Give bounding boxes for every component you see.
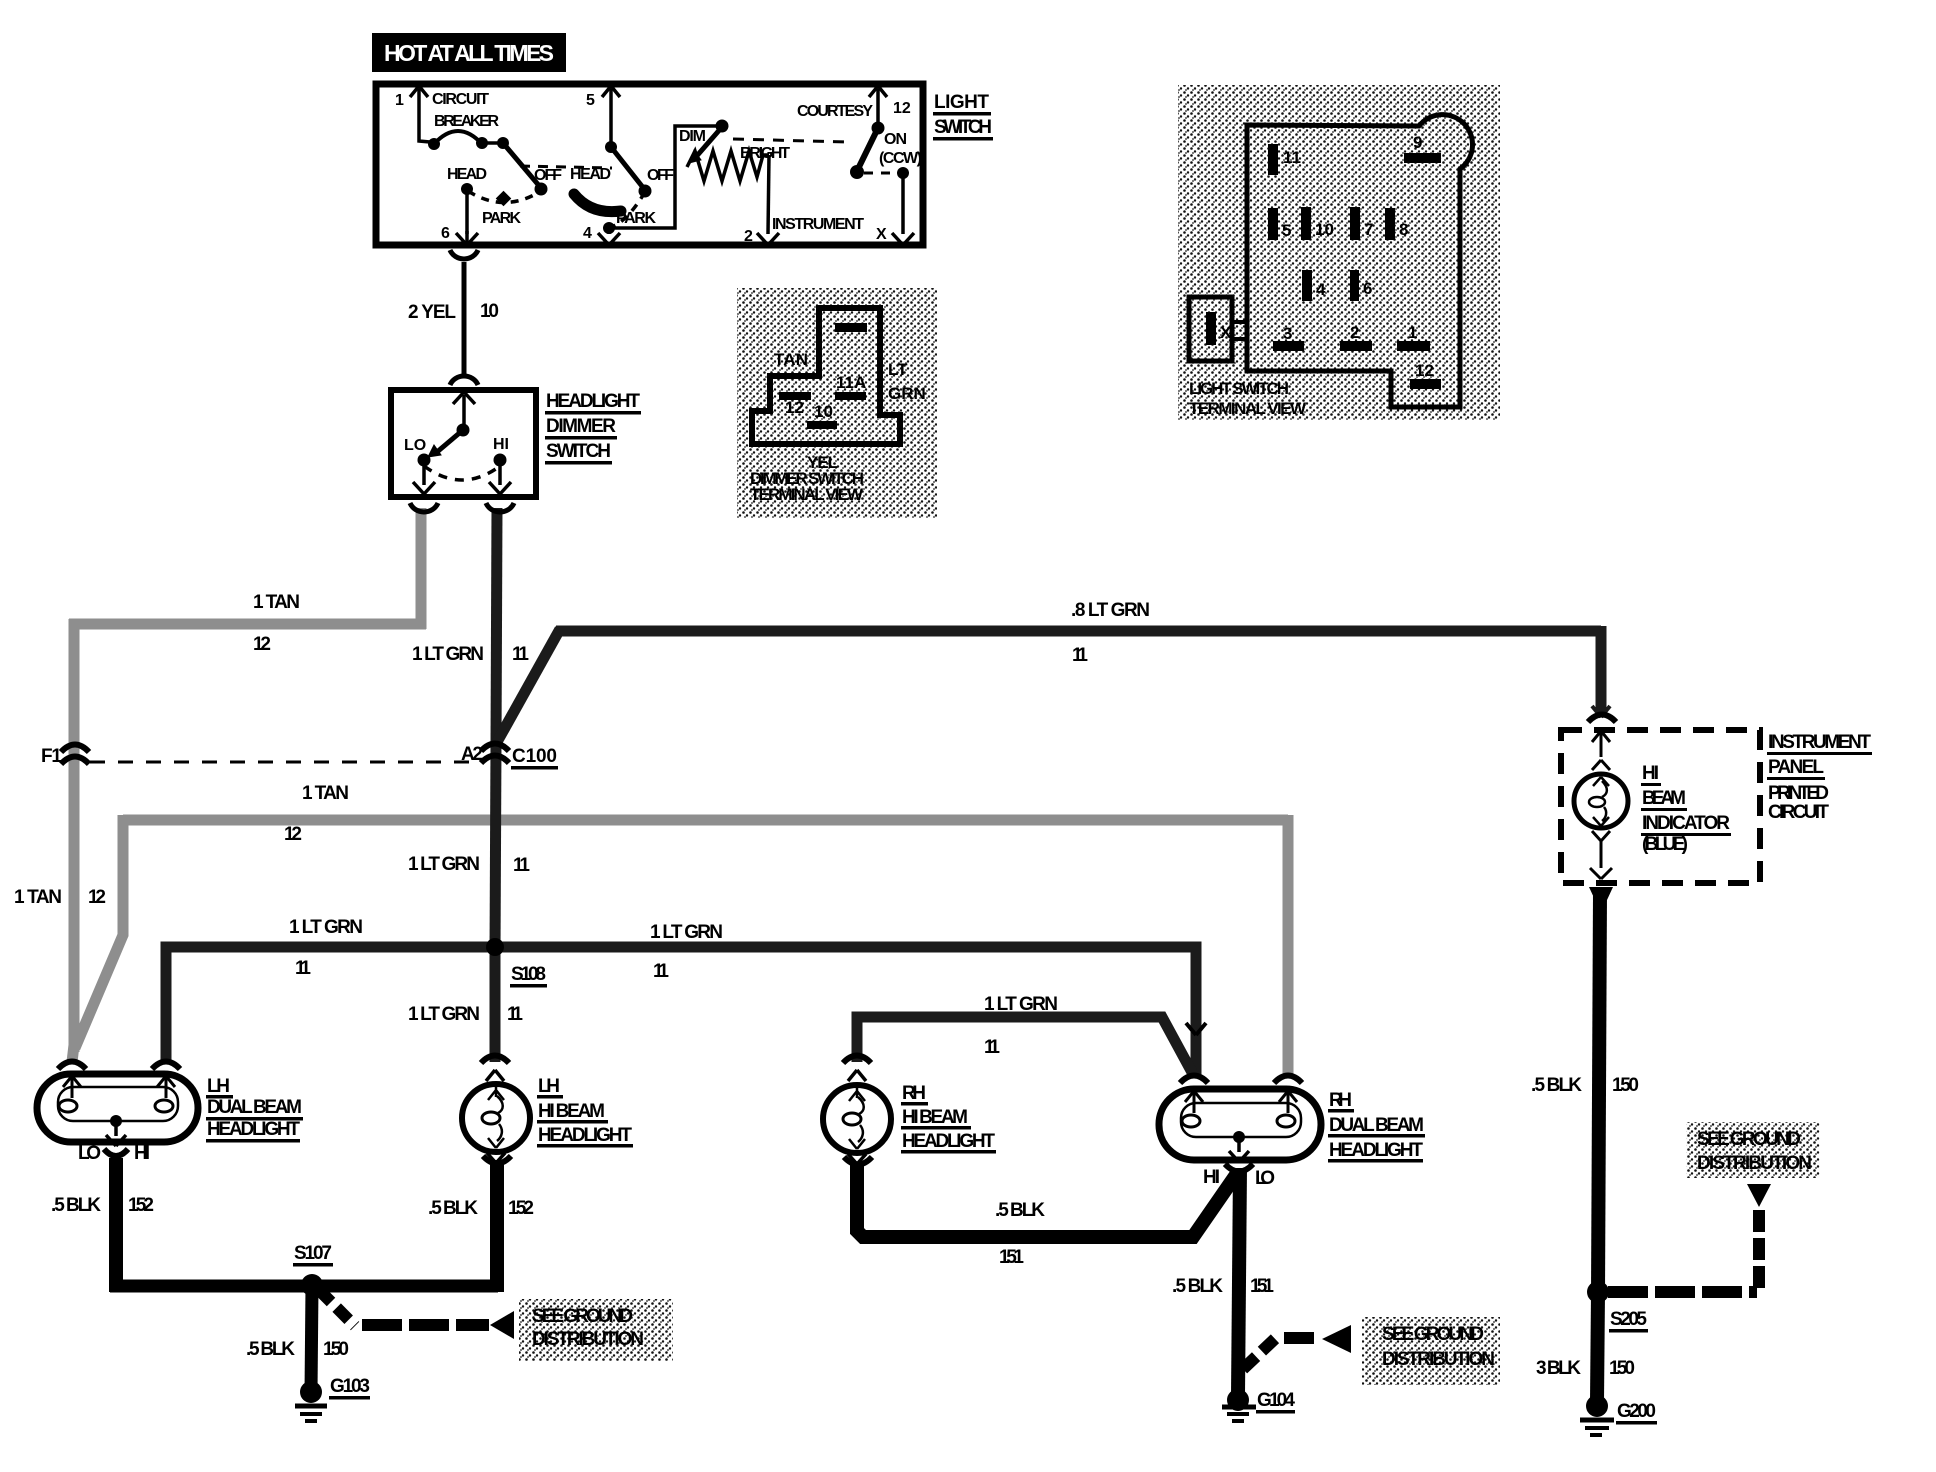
contact dot HEAD 1	[461, 183, 473, 195]
contact dot blade pivot 2	[605, 141, 617, 153]
dashed arc section 2	[611, 192, 645, 227]
svg-text:1 LT GRN: 1 LT GRN	[408, 1004, 480, 1025]
splice S205 dot	[1587, 1281, 1609, 1303]
contact diamond PARK 1	[496, 191, 512, 207]
LH dual beam headlight	[37, 1062, 198, 1157]
dash on to X contact	[864, 172, 893, 175]
svg-text:BEAM: BEAM	[1642, 788, 1686, 809]
terminal X	[1206, 312, 1216, 345]
contact dot ON	[850, 165, 864, 179]
svg-text:GRN: GRN	[888, 384, 926, 403]
contact dot PARK 2	[603, 222, 615, 234]
wire 1 LT GRN 11 below S108 to LH HI beam headlight	[490, 947, 501, 1062]
wire .5 BLK 151 RH HI beam ground run	[857, 1164, 1238, 1237]
filament LO	[1277, 1115, 1295, 1127]
mechanical link dashes section1-section2	[520, 166, 612, 168]
entry connector right terminal	[1274, 1076, 1302, 1084]
entry chevron	[486, 1070, 504, 1081]
svg-text:DIM: DIM	[679, 128, 706, 145]
svg-text:11: 11	[1072, 645, 1088, 666]
svg-text:LT: LT	[888, 360, 908, 379]
svg-text:HI BEAM: HI BEAM	[902, 1107, 968, 1128]
dimmer pivot lead	[462, 395, 466, 428]
svg-text:DUAL BEAM: DUAL BEAM	[1329, 1115, 1424, 1136]
svg-text:11A: 11A	[836, 373, 866, 392]
lamp circle	[462, 1084, 530, 1152]
dashed arc LO-HI	[424, 466, 500, 480]
svg-text:.5 BLK: .5 BLK	[1172, 1276, 1223, 1297]
terminal 10 (dimmer)	[807, 421, 837, 429]
svg-text:SWITCH: SWITCH	[546, 441, 611, 462]
exit connector	[104, 1149, 128, 1156]
wire 1 LT GRN 11 RH HI beam feed horizontal	[857, 1017, 1194, 1076]
svg-text:HEAD: HEAD	[570, 166, 611, 183]
svg-text:ON: ON	[884, 131, 907, 148]
wire 1 TAN 12 left drop of lower run	[75, 815, 123, 1048]
LH HI beam headlight	[462, 1056, 530, 1164]
connector symbol at dimmer switch input	[450, 376, 478, 385]
arrow to see ground distribution (left)	[490, 1311, 514, 1339]
courtesy switch blade	[857, 128, 878, 171]
contact dot CB left	[428, 138, 440, 150]
svg-text:1: 1	[1408, 323, 1417, 342]
svg-text:12: 12	[284, 824, 302, 845]
wire 1 TAN 12 lower horizontal run to RH dual beam	[123, 815, 1288, 826]
exit lead and arrow	[1590, 841, 1612, 879]
entry connector left terminal	[1180, 1076, 1208, 1084]
svg-text:.5 BLK: .5 BLK	[995, 1200, 1045, 1221]
inner envelope	[1181, 1103, 1301, 1137]
connector symbol below pin 6	[450, 250, 478, 259]
pin 2 arrow	[757, 233, 779, 245]
svg-text:1 TAN: 1 TAN	[253, 592, 300, 613]
svg-text:4: 4	[583, 225, 592, 242]
terminal 9	[1404, 153, 1441, 163]
wire 1 TAN 12 right drop into RH dual beam LO terminal	[1283, 815, 1294, 1076]
dashed wire G104 branch to ground distribution	[1243, 1334, 1280, 1369]
svg-text:6: 6	[441, 225, 450, 242]
svg-text:BREAKER: BREAKER	[434, 113, 499, 130]
svg-text:F1: F1	[41, 746, 62, 767]
dashed line dim to on	[733, 139, 848, 142]
svg-text:12: 12	[253, 634, 271, 655]
svg-text:OFF: OFF	[647, 167, 674, 184]
svg-text:152: 152	[508, 1198, 534, 1219]
svg-text:9: 9	[1413, 133, 1422, 152]
svg-text:5: 5	[586, 92, 595, 109]
dimmer switch terminal view	[737, 288, 937, 518]
exit connector	[844, 1157, 872, 1165]
dimmer pivot dot	[457, 424, 470, 437]
RH dual beam headlight	[1159, 1076, 1321, 1172]
light switch terminal view	[1178, 85, 1500, 420]
svg-text:HI: HI	[1203, 1167, 1220, 1188]
svg-text:11: 11	[295, 958, 311, 979]
svg-text:SEE GROUND: SEE GROUND	[1697, 1129, 1801, 1150]
dimmer switch label	[545, 391, 641, 465]
svg-text:150: 150	[1609, 1358, 1635, 1379]
svg-text:S107: S107	[294, 1243, 332, 1264]
svg-text:10: 10	[1315, 220, 1334, 239]
light switch box	[376, 84, 923, 245]
svg-text:INSTRUMENT: INSTRUMENT	[772, 216, 864, 233]
wire 1 LT GRN 11 S108 horizontal left branch to LH dual beam	[166, 947, 495, 1062]
svg-text:DISTRIBUTION: DISTRIBUTION	[1697, 1153, 1812, 1174]
svg-text:X: X	[1220, 323, 1232, 342]
svg-text:3 BLK: 3 BLK	[1536, 1358, 1581, 1379]
connector below dimmer HI	[486, 503, 514, 512]
svg-text:10: 10	[480, 301, 499, 322]
svg-text:PARK: PARK	[616, 210, 656, 227]
ground G103	[295, 1381, 327, 1421]
svg-text:SEE GROUND: SEE GROUND	[1382, 1324, 1484, 1345]
terminal 12	[1410, 379, 1441, 389]
svg-text:LO: LO	[1255, 1168, 1275, 1189]
svg-text:151: 151	[1250, 1276, 1274, 1297]
svg-text:DISTRIBUTION: DISTRIBUTION	[1382, 1349, 1495, 1370]
connector body outline	[1247, 115, 1473, 407]
svg-text:LO: LO	[78, 1143, 101, 1164]
terminal 6	[1350, 270, 1359, 301]
filament LO	[59, 1100, 77, 1112]
svg-text:.8 LT GRN: .8 LT GRN	[1071, 600, 1150, 621]
svg-text:HEADLIGHT: HEADLIGHT	[902, 1131, 995, 1152]
HI lead	[498, 460, 502, 485]
terminal 3	[1273, 341, 1304, 351]
wire 2 YEL 10 (light switch pin 6 to dimmer switch)	[462, 262, 467, 378]
svg-text:2: 2	[744, 228, 753, 245]
splice S108 dot	[486, 938, 504, 956]
terminal 11A	[835, 392, 866, 400]
exit arrow	[1229, 1137, 1249, 1162]
svg-text:4: 4	[1316, 280, 1326, 299]
link dot2-dot3	[482, 141, 503, 145]
svg-text:CIRCUIT: CIRCUIT	[1768, 802, 1829, 823]
terminal arrow right	[1279, 1091, 1297, 1113]
exit arrow	[106, 1121, 126, 1146]
svg-text:.5 BLK: .5 BLK	[246, 1339, 295, 1360]
park contact lead to pin 4	[607, 228, 611, 234]
svg-text:HEAD: HEAD	[447, 166, 487, 183]
svg-text:LH: LH	[207, 1076, 230, 1097]
HI arrow	[489, 482, 511, 494]
exit connector	[483, 1156, 511, 1164]
pin 4 arrow	[598, 233, 620, 245]
wire-end arrow above indicator connector	[1592, 706, 1610, 717]
dimmer LO dot	[418, 454, 431, 467]
terminal arrow left	[1185, 1091, 1203, 1113]
connector body outline	[752, 308, 900, 444]
rheostat to pin 2 lead	[768, 155, 769, 234]
svg-text:HEADLIGHT: HEADLIGHT	[546, 391, 640, 412]
see ground distribution box (G104)	[1362, 1317, 1500, 1385]
terminal 4	[1302, 270, 1312, 301]
bulb glyph	[849, 1088, 865, 1101]
contact dot X	[897, 167, 909, 179]
wire .5 BLK 150 HI beam indicator ground drop	[1598, 893, 1600, 1293]
wire 1 TAN 12 left vertical through F1	[69, 619, 80, 1052]
wire .5 BLK 151 RH dual beam ground drop to G104	[1238, 1168, 1240, 1395]
dashed connector line F1 to C100	[90, 761, 482, 764]
svg-text:PANEL: PANEL	[1768, 757, 1824, 778]
pin 6 arrow	[456, 233, 478, 245]
svg-text:G104: G104	[1257, 1390, 1295, 1411]
entry chevron	[848, 1070, 866, 1081]
arrow from see ground distribution (right)	[1747, 1184, 1771, 1207]
entry connector right terminal	[152, 1062, 180, 1070]
svg-text:1 LT GRN: 1 LT GRN	[650, 922, 723, 943]
terminal arrow right	[157, 1076, 175, 1098]
exit connector	[1225, 1164, 1253, 1172]
arrow into dimmer switch	[453, 392, 475, 404]
svg-text:11: 11	[1283, 148, 1301, 167]
svg-text:HI: HI	[134, 1143, 150, 1164]
svg-text:LIGHT: LIGHT	[934, 92, 989, 113]
HI beam indicator (instrument panel)	[1561, 715, 1760, 901]
svg-text:12: 12	[88, 887, 106, 908]
circuit breaker arc	[434, 131, 482, 144]
bulb glyph	[1593, 777, 1609, 786]
see ground distribution box (S107)	[519, 1299, 673, 1361]
filament HI	[1182, 1115, 1200, 1127]
head contact lead to pin 6	[465, 193, 469, 234]
terminal 10	[1301, 207, 1311, 240]
wire .5 BLK 152 ground bus into S107	[110, 1280, 498, 1293]
exit chevron	[848, 1154, 866, 1164]
svg-text:HI BEAM: HI BEAM	[538, 1101, 605, 1122]
svg-text:1 LT GRN: 1 LT GRN	[408, 854, 480, 875]
wire .8 LT GRN 11 horizontal run to instrument panel	[556, 626, 1601, 637]
terminal 7	[1350, 207, 1360, 240]
LABELS-LAYER	[14, 301, 1872, 1425]
svg-text:PRINTED: PRINTED	[1768, 783, 1829, 804]
splice S107 dot	[301, 1274, 323, 1296]
svg-text:A2: A2	[461, 744, 483, 765]
svg-text:LIGHT SWITCH: LIGHT SWITCH	[1189, 379, 1289, 398]
contact dot OFF 2	[639, 185, 652, 198]
svg-text:.5 BLK: .5 BLK	[1531, 1075, 1582, 1096]
inner envelope	[58, 1087, 178, 1121]
svg-text:HI: HI	[493, 436, 509, 453]
ground G200	[1580, 1395, 1614, 1435]
bulb glyph	[488, 1087, 504, 1100]
LO arrow	[413, 482, 435, 494]
svg-text:1 LT GRN: 1 LT GRN	[412, 644, 484, 665]
entry connector	[843, 1056, 871, 1064]
terminal 5	[1268, 208, 1278, 240]
terminal 2	[1340, 341, 1372, 351]
svg-text:8: 8	[1399, 220, 1408, 239]
svg-text:12: 12	[785, 398, 804, 417]
svg-text:LO: LO	[404, 437, 426, 454]
svg-text:5: 5	[1282, 221, 1291, 240]
svg-text:DUAL BEAM: DUAL BEAM	[207, 1097, 302, 1118]
dimmer HI dot	[494, 454, 507, 467]
connector C100 A2 (stacked arcs)	[481, 744, 509, 752]
svg-text:1 LT GRN: 1 LT GRN	[289, 917, 363, 938]
indicator lamp circle	[1574, 774, 1628, 828]
svg-text:HEADLIGHT: HEADLIGHT	[538, 1125, 632, 1146]
terminal 12 (dimmer)	[779, 392, 811, 400]
svg-text:1 TAN: 1 TAN	[302, 783, 349, 804]
dashed wire S205 to ground distribution	[1608, 1286, 1757, 1298]
svg-text:11: 11	[512, 644, 529, 665]
switch blade pin5 section	[611, 147, 645, 190]
pin X arrow	[892, 233, 914, 245]
svg-text:DIMMER: DIMMER	[546, 416, 616, 437]
connector below dimmer LO	[410, 503, 438, 512]
svg-text:12: 12	[1415, 361, 1434, 380]
lamp body (stadium)	[37, 1074, 198, 1142]
svg-text:X: X	[876, 226, 887, 243]
svg-text:TERMINAL VIEW: TERMINAL VIEW	[1189, 399, 1307, 418]
svg-text:RH: RH	[902, 1083, 926, 1104]
headlight dimmer switch box	[391, 390, 536, 497]
ground G104	[1222, 1389, 1256, 1421]
svg-text:10: 10	[814, 402, 833, 421]
svg-text:S108: S108	[511, 964, 546, 985]
wire 1 LT GRN 11 S108 horizontal right branch	[495, 947, 1196, 1076]
RH HI beam headlight	[823, 1056, 891, 1165]
svg-text:COURTESY: COURTESY	[797, 103, 873, 120]
dimmer blade to LO	[437, 430, 463, 452]
svg-text:12: 12	[893, 100, 911, 117]
svg-text:150: 150	[1612, 1075, 1639, 1096]
svg-text:1: 1	[395, 92, 404, 109]
svg-text:152: 152	[128, 1195, 154, 1216]
svg-text:CIRCUIT: CIRCUIT	[432, 91, 489, 108]
LO lead	[422, 460, 426, 485]
svg-text:C100: C100	[512, 746, 557, 767]
svg-text:HEADLIGHT: HEADLIGHT	[207, 1119, 300, 1140]
svg-text:SWITCH: SWITCH	[934, 117, 992, 138]
light switch label	[933, 92, 993, 141]
common dot	[1233, 1131, 1245, 1143]
svg-text:1 TAN: 1 TAN	[14, 887, 62, 908]
svg-text:1 LT GRN: 1 LT GRN	[984, 994, 1058, 1015]
wire .8 LT GRN 11 drop to HI beam indicator	[1596, 626, 1607, 716]
svg-text:OFF: OFF	[534, 167, 562, 184]
svg-text:2: 2	[1350, 323, 1359, 342]
svg-text:11: 11	[513, 855, 530, 876]
svg-text:TERMINAL VIEW: TERMINAL VIEW	[750, 485, 864, 504]
svg-text:INSTRUMENT: INSTRUMENT	[1768, 732, 1871, 753]
wire 3 BLK 150 S205 to G200	[1597, 1293, 1598, 1402]
terminal top	[835, 323, 867, 332]
svg-text:7: 7	[1364, 220, 1373, 239]
X cavity box	[1189, 297, 1232, 361]
wire .5 BLK 150 S107 to G103	[311, 1286, 312, 1393]
pin 5 lead	[609, 89, 613, 147]
arrow to see ground distribution (middle)	[1322, 1325, 1351, 1353]
svg-text:TAN: TAN	[774, 350, 808, 369]
svg-text:HI: HI	[1642, 763, 1659, 784]
filament HI	[155, 1100, 173, 1112]
svg-text:RH: RH	[1329, 1090, 1352, 1111]
terminal 1	[1397, 341, 1430, 351]
neck lines	[1232, 320, 1247, 324]
dashed arc head-park-off (section 1)	[468, 191, 541, 203]
park to rheostat riser	[609, 126, 719, 228]
contact dot courtesy pivot	[872, 122, 885, 135]
svg-text:PARK: PARK	[482, 210, 521, 227]
svg-text:11: 11	[507, 1004, 523, 1025]
rheostat wiper arm	[695, 127, 722, 158]
common dot	[110, 1115, 122, 1127]
instrument panel dashed box	[1561, 730, 1760, 883]
contact dot OFF 1	[535, 183, 548, 196]
contact dot CB right	[476, 137, 488, 149]
head position thick crescent	[574, 194, 621, 212]
entry connector left terminal	[58, 1062, 86, 1070]
see ground distribution box (S205)	[1686, 1122, 1820, 1178]
svg-text:3: 3	[1283, 324, 1292, 343]
dashed wire S107 to ground distribution	[319, 1290, 355, 1326]
pin 1 lead	[419, 89, 430, 142]
svg-text:G103: G103	[330, 1376, 370, 1397]
wire .8 LT GRN 11 diagonal from C100 junction	[497, 629, 560, 742]
svg-text:6: 6	[1363, 279, 1372, 298]
chevron above lamp	[1592, 760, 1610, 770]
lamp circle	[823, 1085, 891, 1153]
wire .5 BLK 152 LH dual beam ground drop	[109, 1158, 123, 1292]
stipple background	[737, 288, 937, 518]
connector F1 (stacked arcs)	[61, 745, 89, 753]
chevron below lamp	[1592, 831, 1610, 841]
svg-text:SEE GROUND: SEE GROUND	[532, 1306, 633, 1327]
wire .5 BLK 152 LH HI beam ground drop	[490, 1160, 504, 1292]
svg-text:.5 BLK: .5 BLK	[51, 1195, 101, 1216]
svg-text:LH: LH	[538, 1076, 560, 1097]
svg-text:DISTRIBUTION: DISTRIBUTION	[532, 1329, 644, 1350]
stipple background	[1178, 85, 1500, 420]
svg-text:S205: S205	[1610, 1309, 1647, 1330]
WIRES-LAYER	[69, 262, 1771, 1402]
wire 1 TAN 12 horizontal upper run	[69, 619, 426, 630]
svg-text:G200: G200	[1617, 1401, 1656, 1422]
terminal 11	[1268, 144, 1278, 175]
svg-text:(BLUE): (BLUE)	[1642, 834, 1688, 855]
entry connector	[481, 1056, 509, 1064]
svg-text:BRIGHT: BRIGHT	[740, 145, 790, 162]
svg-text:.5 BLK: .5 BLK	[428, 1198, 478, 1219]
svg-text:151: 151	[999, 1247, 1024, 1268]
entry connector	[1588, 715, 1616, 723]
rheostat resistor zigzag	[687, 151, 769, 181]
exit chevron	[487, 1153, 505, 1163]
entry arrow	[1592, 731, 1610, 757]
svg-text:HEADLIGHT: HEADLIGHT	[1329, 1140, 1423, 1161]
svg-text:11: 11	[984, 1037, 1000, 1058]
mid-wire arrow on RH dual feed	[1186, 1023, 1206, 1035]
hot at all times banner	[372, 33, 566, 72]
terminal arrow left	[63, 1076, 81, 1098]
pin 12 lead	[876, 89, 880, 128]
exit funnel to ground wire	[1589, 887, 1613, 900]
contact dot blade pivot 1	[497, 137, 509, 149]
svg-text:(CCW): (CCW)	[879, 150, 922, 167]
X contact lead to pin X	[901, 173, 905, 234]
svg-text:150: 150	[323, 1339, 349, 1360]
wire 1 TAN 12 from dimmer LO down	[416, 508, 427, 629]
terminal 8	[1385, 208, 1395, 240]
contact dot DIM	[716, 120, 729, 133]
wire 1 TAN left lead into LH dual beam headlight	[72, 1045, 74, 1062]
svg-text:11: 11	[653, 961, 669, 982]
svg-text:2 YEL: 2 YEL	[408, 302, 456, 323]
svg-text:HOT AT ALL TIMES: HOT AT ALL TIMES	[384, 40, 554, 66]
wire 1 LT GRN 11 from C100 down to S108	[495, 744, 496, 952]
